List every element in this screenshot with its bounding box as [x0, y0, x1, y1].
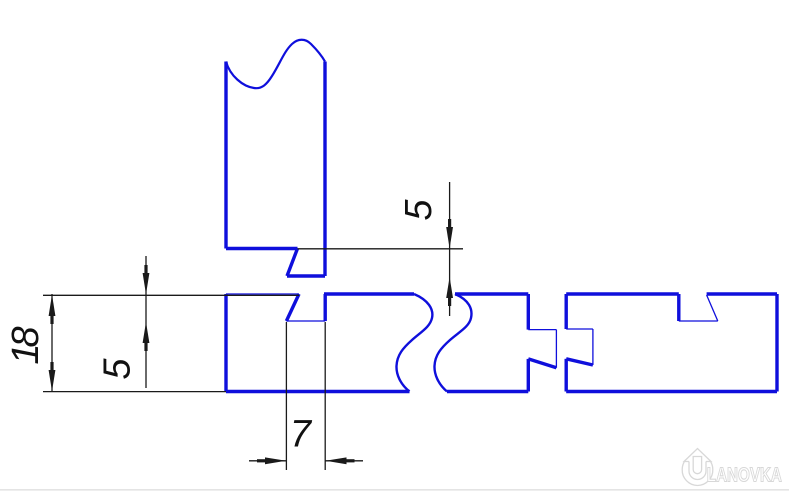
wire right end face lower	[527, 359, 530, 392]
wire notch right side	[324, 294, 327, 321]
wire tongue top thin	[528, 329, 556, 331]
arrow 7 right	[326, 457, 347, 464]
watermark ULANOVKA logo	[682, 449, 713, 486]
arrow 5top down	[446, 227, 453, 249]
dimension 5 (middle)	[145, 256, 147, 388]
wire top edge right of break	[455, 292, 528, 295]
wire left face upper	[565, 294, 568, 329]
svg-text:5: 5	[398, 199, 440, 221]
arrow 18 top	[49, 295, 56, 317]
arrow 5mid up	[143, 322, 150, 343]
wire left face lower	[565, 359, 568, 392]
wire dim line 5 middle	[145, 256, 147, 388]
wire notch left side	[677, 294, 680, 321]
dimension 5 (top)	[298, 182, 464, 316]
wire top edge thin left part	[226, 293, 299, 295]
wire dim line 7 right tail	[325, 460, 363, 462]
wire ext line top	[43, 294, 299, 296]
svg-text:5: 5	[97, 358, 139, 380]
dimension 18	[43, 294, 299, 392]
wire notch bottom thin	[679, 320, 718, 322]
wire right end face upper	[527, 294, 530, 330]
vertical board (top)	[226, 40, 325, 276]
wire bottom edge	[566, 390, 777, 393]
wire ext line left of 7	[285, 322, 287, 470]
wire bottom edge right of break	[447, 390, 528, 393]
wire left edge	[224, 294, 227, 392]
dimension 7	[249, 322, 363, 470]
svg-text:18: 18	[5, 327, 47, 365]
footer rule	[0, 489, 789, 491]
wire tongue tip thin	[555, 330, 557, 368]
wire top edge right of notch	[707, 292, 777, 295]
wire top edge left of notch	[566, 292, 679, 295]
wire dim line 5 top	[449, 182, 451, 316]
wire notch left diagonal	[286, 294, 299, 321]
svg-text:7: 7	[290, 413, 313, 455]
wire tongue diagonal of vertical board	[287, 249, 298, 277]
wire groove bottom diagonal	[566, 359, 593, 365]
right board	[566, 294, 777, 392]
wire ext line bottom	[43, 391, 226, 393]
wire ext line right of 7	[324, 322, 326, 470]
svg-text:LANOVKA: LANOVKA	[707, 463, 782, 486]
arrow 5top up	[446, 277, 453, 298]
wire wavy break line top	[226, 40, 325, 88]
wire right end face	[775, 294, 778, 392]
arrow 7 left	[265, 457, 286, 464]
wire left edge of vertical board	[224, 62, 227, 249]
wire break curve 1	[396, 294, 432, 392]
middle-left board	[226, 294, 556, 392]
wire bottom edge left part	[226, 390, 410, 393]
wire dim line 7 left tail	[249, 460, 286, 462]
wire dim line 18	[51, 294, 53, 392]
wire right edge of vertical board	[323, 62, 326, 277]
wire bottom edge of vertical board	[226, 247, 298, 250]
arrow 5mid down	[143, 273, 150, 294]
wire top edge between notch and break	[324, 292, 414, 295]
wire notch right diagonal thin	[707, 295, 718, 321]
wire break curve 2	[434, 294, 471, 392]
arrow 18 bottom	[49, 370, 56, 391]
wire notch bottom	[286, 320, 325, 322]
wire tongue bottom diagonal	[528, 359, 556, 368]
wire ext line y248	[298, 248, 464, 250]
wire groove top thin	[566, 328, 593, 330]
wire tongue bottom of vertical board	[287, 274, 325, 277]
wire groove back thin	[592, 329, 594, 365]
